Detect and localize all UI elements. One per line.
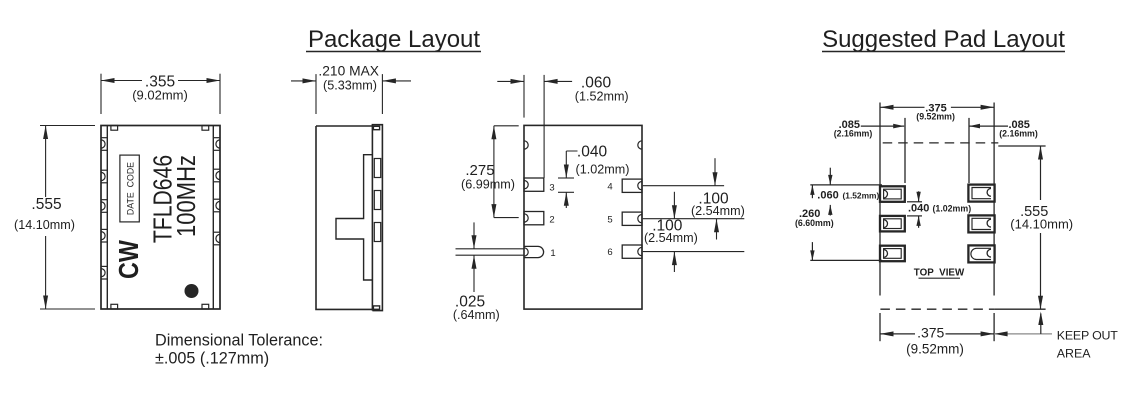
pin 4 pad bbox=[622, 179, 642, 192]
dimension .260 (6.60mm) bbox=[810, 259, 882, 261]
keep out area leader bbox=[994, 333, 1052, 335]
svg-text:CW: CW bbox=[114, 239, 144, 279]
svg-text:AREA: AREA bbox=[1057, 346, 1091, 360]
svg-text:(5.33mm): (5.33mm) bbox=[323, 78, 377, 92]
pin diagram: package outline bbox=[524, 125, 642, 309]
pad layout: dashed package bottom edge bbox=[880, 308, 994, 310]
pin 5 extension line bbox=[643, 218, 745, 220]
svg-text:(1.52mm): (1.52mm) bbox=[575, 90, 629, 104]
svg-text:.555: .555 bbox=[31, 196, 61, 213]
svg-text:100MHz: 100MHz bbox=[173, 155, 202, 237]
front view: corner notches bbox=[111, 126, 118, 131]
dimension .555 (14.10mm) right bbox=[998, 145, 1045, 147]
front view: right edge castellations bbox=[213, 137, 220, 139]
svg-text:(1.52mm): (1.52mm) bbox=[843, 190, 880, 200]
svg-text:Package Layout: Package Layout bbox=[308, 26, 480, 53]
dimension .375 (9.52mm) bottom bbox=[880, 333, 915, 335]
side view: bottom pin tab bbox=[373, 306, 379, 309]
dimension .555 (14.10mm) height of front view bbox=[40, 125, 95, 127]
pin 3 pad bbox=[524, 178, 544, 191]
dimension .060 (1.52mm) pad length bbox=[523, 75, 525, 118]
svg-text:.375: .375 bbox=[917, 325, 944, 341]
side view: cover outline bbox=[316, 126, 372, 309]
svg-text:.210 MAX: .210 MAX bbox=[318, 63, 379, 78]
svg-text:(1.02mm): (1.02mm) bbox=[933, 203, 972, 213]
pads right column bbox=[968, 185, 994, 202]
pin 2 pad bbox=[524, 212, 544, 225]
pin 6 extension line bbox=[643, 251, 745, 253]
svg-text:.040: .040 bbox=[908, 202, 929, 214]
svg-text:(2.54mm): (2.54mm) bbox=[691, 204, 745, 218]
pad layout: dashed package top edge bbox=[883, 142, 999, 144]
pin 4 extension line bbox=[643, 185, 724, 187]
front view: DATE CODE box bbox=[120, 155, 139, 222]
svg-text:(14.10mm): (14.10mm) bbox=[14, 218, 75, 232]
svg-text:(.64mm): (.64mm) bbox=[453, 308, 500, 322]
side view: pins (3) bbox=[374, 159, 380, 178]
svg-text:1: 1 bbox=[550, 248, 555, 259]
svg-text:2: 2 bbox=[549, 215, 554, 226]
dimension .060 (1.52mm) pad height bbox=[810, 184, 882, 186]
pad layout: left pad inner extension bbox=[904, 118, 906, 183]
dimension .040 (1.02mm) pad gap bbox=[907, 201, 922, 203]
pin diagram: left edge castellation bumps bbox=[524, 141, 528, 149]
svg-text:5: 5 bbox=[607, 215, 612, 226]
pin 6 pad bbox=[622, 245, 642, 258]
pad layout: right boundary line bbox=[993, 103, 995, 296]
svg-text:(9.52mm): (9.52mm) bbox=[916, 111, 955, 121]
svg-text:DATE CODE: DATE CODE bbox=[126, 162, 136, 215]
svg-text:Suggested Pad Layout: Suggested Pad Layout bbox=[822, 26, 1065, 53]
pads left column bbox=[880, 186, 905, 202]
front view: left edge castellations bbox=[101, 137, 107, 139]
side view: top pin tab bbox=[373, 126, 379, 129]
svg-text:TOP VIEW: TOP VIEW bbox=[914, 267, 965, 278]
svg-text:(1.02mm): (1.02mm) bbox=[576, 162, 630, 176]
svg-text:4: 4 bbox=[607, 182, 612, 193]
svg-text:±.005 (.127mm): ±.005 (.127mm) bbox=[155, 350, 269, 368]
dimension .375 (9.52mm) top bbox=[880, 106, 925, 108]
front view: pin 1 dot bbox=[185, 284, 199, 298]
svg-text:(6.60mm): (6.60mm) bbox=[795, 218, 834, 228]
svg-text:.040: .040 bbox=[577, 143, 608, 160]
dimension .210 MAX (5.33mm) side view width bbox=[315, 74, 317, 114]
svg-text:(2.16mm): (2.16mm) bbox=[999, 128, 1038, 138]
svg-text:.060: .060 bbox=[817, 189, 838, 201]
svg-text:KEEP OUT: KEEP OUT bbox=[1057, 329, 1118, 343]
svg-text:(2.54mm): (2.54mm) bbox=[644, 231, 698, 245]
pad layout: left boundary line bbox=[879, 103, 881, 296]
svg-text:(2.16mm): (2.16mm) bbox=[834, 128, 873, 138]
dimension .040 (1.02mm) pad width bbox=[566, 151, 577, 178]
svg-text:6: 6 bbox=[607, 247, 612, 258]
dimension .025 (.64mm) pin 1 offset bbox=[456, 248, 524, 250]
dimension .275 (6.99mm) bbox=[494, 125, 519, 127]
dimension .100 (2.54mm) pins 4-5 bbox=[714, 158, 716, 186]
front view: package outer body bbox=[101, 126, 220, 310]
pin 1 pad (stadium) bbox=[524, 246, 544, 257]
svg-text:Dimensional Tolerance:: Dimensional Tolerance: bbox=[155, 332, 323, 350]
pin diagram: right edge castellation notches bbox=[638, 141, 642, 149]
side view: inner step contour with standoff bbox=[336, 155, 372, 280]
svg-text:3: 3 bbox=[549, 183, 554, 194]
svg-text:(9.52mm): (9.52mm) bbox=[906, 342, 964, 357]
pin 5 pad bbox=[622, 212, 642, 225]
svg-text:(9.02mm): (9.02mm) bbox=[132, 87, 188, 102]
svg-text:(6.99mm): (6.99mm) bbox=[461, 177, 515, 191]
front view: lid left edge bbox=[106, 126, 108, 310]
svg-text:(14.10mm): (14.10mm) bbox=[1010, 217, 1073, 232]
dimension .100 (2.54mm) pins 5-6 bbox=[673, 192, 675, 219]
pad layout: right pad inner extension bbox=[968, 118, 970, 183]
dimension .355 (9.02mm) width of front view bbox=[100, 74, 102, 114]
front view: lid right edge bbox=[212, 126, 214, 310]
side view: base plate outline bbox=[372, 125, 382, 311]
